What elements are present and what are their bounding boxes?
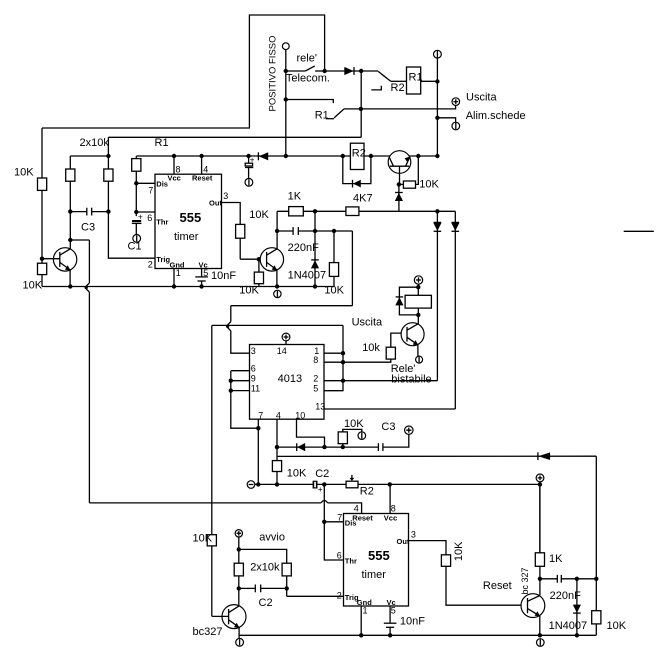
wire Q4 collector xyxy=(417,287,419,324)
svg-text:+: + xyxy=(318,485,323,494)
terminal below C1 xyxy=(133,235,141,243)
switch R2 contact xyxy=(361,70,378,72)
pin 2 wire xyxy=(324,380,437,382)
terminal plus right xyxy=(536,474,544,482)
svg-text:4K7: 4K7 xyxy=(353,193,373,205)
node thr xyxy=(134,210,138,214)
wire bottom rail y635 xyxy=(239,634,596,636)
wire Q5 collector column xyxy=(539,484,541,595)
node x315 y231 xyxy=(313,229,317,233)
wire minus rail y484 xyxy=(255,483,540,485)
node 220nF2 left xyxy=(538,577,542,581)
svg-text:2: 2 xyxy=(313,373,318,383)
node positivo/R1 branch xyxy=(284,97,288,101)
svg-text:13: 13 xyxy=(315,402,325,412)
wire hop column x89 lower xyxy=(88,292,90,503)
svg-text:timer: timer xyxy=(362,569,387,581)
capacitor C3 #2 plates xyxy=(377,443,379,451)
svg-text:5: 5 xyxy=(391,606,396,616)
diode pin4 (points left) xyxy=(296,443,298,451)
svg-text:Alim.schede: Alim.schede xyxy=(466,110,526,122)
diode y456 (points left) xyxy=(537,452,539,460)
resistor 10K y436 xyxy=(342,444,344,447)
svg-text:rele': rele' xyxy=(297,53,317,65)
wire alim schede xyxy=(437,118,455,122)
terminal Uscita plus xyxy=(452,98,460,106)
transistor Q5 reset bc327 xyxy=(521,594,545,618)
svg-text:2x10k: 2x10k xyxy=(80,137,110,149)
svg-text:C2: C2 xyxy=(259,597,273,609)
svg-text:Out: Out xyxy=(209,199,222,208)
resistor 2x10k right xyxy=(104,169,113,181)
node pin7 xyxy=(256,426,260,430)
svg-text:3: 3 xyxy=(223,191,228,201)
svg-text:bc 327: bc 327 xyxy=(520,567,530,594)
pin 8 Vcc stub xyxy=(173,156,175,174)
wire q2 collector xyxy=(276,211,278,249)
resistor 10K q2 base xyxy=(258,259,260,272)
svg-text:2: 2 xyxy=(337,591,342,601)
svg-text:R1: R1 xyxy=(315,110,329,122)
node q1 emitter ground xyxy=(68,284,72,288)
capacitor 220nF2 plates xyxy=(556,575,558,583)
pin 11 wire xyxy=(231,390,250,392)
svg-text:6: 6 xyxy=(337,550,342,560)
wire Q4 emitter xyxy=(417,345,419,356)
node pin11 xyxy=(229,388,233,392)
node gnd x174 xyxy=(172,284,176,288)
svg-text:2x10k: 2x10k xyxy=(250,562,280,574)
wire dis2 xyxy=(324,521,343,523)
svg-text:R1: R1 xyxy=(409,72,423,84)
switch R2 fixed contact mark xyxy=(371,86,381,90)
resistor 4K7 xyxy=(346,207,359,216)
wire y456 row xyxy=(277,455,596,457)
svg-text:3: 3 xyxy=(411,530,416,540)
node 2x10k top right xyxy=(106,154,110,158)
node y484 C2 xyxy=(322,482,326,486)
node rail x418 xyxy=(416,154,420,158)
pin 13 wire xyxy=(324,408,455,410)
diode q3 base (points up) xyxy=(398,184,400,211)
svg-text:4013: 4013 xyxy=(278,373,302,385)
wire reset row y503 xyxy=(89,502,321,504)
svg-text:555: 555 xyxy=(368,548,390,563)
wire top feedback loop xyxy=(42,15,325,128)
svg-text:10nF: 10nF xyxy=(400,615,425,627)
wire 2x10k right lower xyxy=(286,576,288,596)
svg-text:10K: 10K xyxy=(344,418,364,430)
terminal below bc327 xyxy=(236,638,244,646)
svg-text:10K: 10K xyxy=(419,179,439,191)
switch R1 blade xyxy=(326,118,334,120)
svg-text:8: 8 xyxy=(391,503,396,513)
svg-text:1: 1 xyxy=(176,268,181,278)
wire 10k to base xyxy=(391,333,402,347)
terminal below elko xyxy=(245,178,253,186)
node R1 coil right xyxy=(435,79,439,83)
terminal avvio plus xyxy=(235,530,242,537)
resistor 10K top-left xyxy=(38,178,47,190)
wire pin8 to 10k xyxy=(343,359,391,362)
svg-text:10K: 10K xyxy=(453,541,465,561)
diode on rail (points left) xyxy=(259,152,268,160)
wire q2 emitter xyxy=(276,270,278,287)
svg-text:avvio: avvio xyxy=(259,532,285,544)
wire R1 coil to terminal column xyxy=(421,80,438,82)
node rail x201 xyxy=(199,154,203,158)
node rail elko xyxy=(246,154,250,158)
wire y137 xyxy=(108,136,361,138)
relay coil R1 xyxy=(407,67,421,94)
pin 1 Gnd stub #2 xyxy=(360,606,362,635)
svg-text:7: 7 xyxy=(337,512,342,522)
node q2 collector 220nF xyxy=(275,229,279,233)
pin 1 Gnd stub xyxy=(173,269,175,287)
pin 9 wire xyxy=(231,380,250,382)
wire Q3 base network xyxy=(399,183,404,185)
node telecom right xyxy=(322,69,326,73)
wire pin3 column with hop xyxy=(230,306,232,322)
corner into Dis resistor xyxy=(135,156,137,159)
node x315 ground xyxy=(313,284,317,288)
terminal plus pin14 xyxy=(282,333,290,341)
node y578 right column xyxy=(594,577,598,581)
svg-text:10K: 10K xyxy=(287,468,307,480)
wire pins691 column xyxy=(231,371,258,429)
resistor 10K pin4 xyxy=(272,461,281,472)
wire Q5 emitter xyxy=(539,616,541,635)
resistor 1K #2 xyxy=(535,553,544,567)
wire avvio top row xyxy=(239,549,287,563)
svg-text:6: 6 xyxy=(147,213,152,223)
terminal below Q5 xyxy=(537,639,545,647)
node pin10 xyxy=(322,445,326,449)
svg-text:10K: 10K xyxy=(23,280,43,292)
svg-text:7: 7 xyxy=(258,410,263,420)
wire plus column 1K xyxy=(539,482,541,553)
relay coil R2 xyxy=(350,143,364,169)
transistor Q3 relay driver xyxy=(388,151,411,174)
wire hop column x89 upper xyxy=(88,240,90,283)
wire main rail y156 xyxy=(136,155,437,157)
svg-text:10K: 10K xyxy=(607,620,627,632)
svg-text:4: 4 xyxy=(354,503,359,513)
resistor 2x10k right #2 xyxy=(282,563,291,576)
wire diode row y447 xyxy=(277,446,378,448)
pin 1 wire xyxy=(324,352,343,354)
transistor bc327 xyxy=(222,605,246,629)
node avvio top xyxy=(237,547,241,551)
wire 220nF2 row xyxy=(540,578,557,580)
svg-text:Uscita: Uscita xyxy=(466,92,497,104)
node C2 left xyxy=(237,586,241,590)
node y484 pin7 xyxy=(256,482,260,486)
pin 5 wire xyxy=(324,390,343,392)
wire left column x42 xyxy=(41,128,43,287)
pin 4 Reset stub xyxy=(201,156,203,174)
node y484 right end xyxy=(538,482,542,486)
wire x315 column xyxy=(314,211,316,286)
pin 2 Trig wire #2 xyxy=(287,595,344,597)
diode 1N4007 (points up) xyxy=(311,259,319,261)
node alim branch xyxy=(435,116,439,120)
svg-text:10k: 10k xyxy=(362,342,380,354)
svg-text:R2: R2 xyxy=(352,148,366,160)
node switch column xyxy=(359,69,363,73)
pin 8 Vcc stub #2 xyxy=(389,484,391,513)
wire uscita y109 xyxy=(344,105,456,109)
svg-text:Out: Out xyxy=(397,537,410,546)
capacitor C2 elko xyxy=(313,481,318,489)
svg-text:Dis: Dis xyxy=(156,180,168,189)
wire ground y286 xyxy=(42,286,334,288)
resistor 10K lower-left xyxy=(38,263,47,274)
svg-text:C3: C3 xyxy=(381,421,395,433)
pin 8 wire xyxy=(324,361,343,363)
svg-text:1N4007: 1N4007 xyxy=(549,620,588,632)
wire 2x10k tops xyxy=(70,155,108,157)
diode flyback R2 (points left) xyxy=(353,180,361,188)
diode 1N4007 #2 (points down) xyxy=(576,579,578,636)
node C2 right xyxy=(285,586,289,590)
svg-text:2: 2 xyxy=(148,259,153,269)
IC 555 timer #1 xyxy=(155,174,222,268)
hop over ground wire xyxy=(86,283,89,292)
svg-text:bistabile: bistabile xyxy=(391,373,431,385)
wire q1 emitter xyxy=(69,270,71,287)
node y211 x437 xyxy=(435,209,439,213)
node R1 blade column xyxy=(359,107,363,111)
svg-text:10K: 10K xyxy=(249,209,269,221)
trimmer R2 xyxy=(346,481,358,488)
node rail end x437 xyxy=(435,154,439,158)
capacitor elko at rail xyxy=(248,156,250,163)
diode telecom (points right) xyxy=(344,67,353,75)
svg-text:10K: 10K xyxy=(14,167,34,179)
svg-text:Thr: Thr xyxy=(345,556,357,565)
terminal below q2 xyxy=(274,290,281,297)
svg-text:timer: timer xyxy=(174,231,199,243)
node y484 pin4 xyxy=(275,482,279,486)
terminal supply top-right xyxy=(434,50,442,58)
wire Uscita y325 xyxy=(212,324,343,326)
resistor 10K dis xyxy=(132,159,141,172)
wire uscita column x211 xyxy=(211,325,213,616)
wire q1 collector to hop column xyxy=(70,239,89,241)
resistor 10K q3 xyxy=(403,181,415,188)
svg-text:1: 1 xyxy=(363,606,368,616)
svg-text:10nF: 10nF xyxy=(211,270,236,282)
terminal x361 xyxy=(358,432,366,440)
svg-text:10: 10 xyxy=(295,410,305,420)
wire x108 column xyxy=(108,137,155,258)
capacitor C2 #2 xyxy=(239,587,256,589)
wire switch column x361 xyxy=(360,71,362,137)
node dis2 xyxy=(322,520,326,524)
svg-text:bc327: bc327 xyxy=(193,626,223,638)
pin 5 Vc stub + 10nF #2 xyxy=(389,606,391,623)
svg-text:+: + xyxy=(250,155,255,164)
resistor 10K x334 xyxy=(333,231,335,287)
wire positivo rail x286 xyxy=(285,50,287,156)
node bistabile bottom xyxy=(416,313,420,317)
wire 220nF y231 xyxy=(277,230,293,232)
transistor Q1 xyxy=(53,248,76,271)
wire telecom to diode xyxy=(325,70,362,72)
svg-text:10K: 10K xyxy=(239,285,259,297)
node c3 left xyxy=(68,209,72,213)
node pin2 xyxy=(341,379,345,383)
pin 7 Dis wire xyxy=(136,182,155,184)
svg-text:7: 7 xyxy=(148,185,153,195)
wire C2 column to 555 xyxy=(324,484,343,560)
node 1n4007-2 top xyxy=(575,577,579,581)
svg-text:POSITIVO FISSO: POSITIVO FISSO xyxy=(267,35,278,111)
svg-text:+: + xyxy=(138,212,143,221)
terminal below Q4 xyxy=(416,356,423,363)
relay coil bistabile xyxy=(405,295,431,308)
svg-text:R2: R2 xyxy=(391,82,405,94)
switch R1 fixed wire xyxy=(286,100,334,104)
diode to 4013 (points down) x455 xyxy=(454,211,456,409)
diode flyback bistabile (points up) xyxy=(396,296,404,298)
terminal minus xyxy=(247,481,255,489)
resistor 2x10k left #2 xyxy=(234,563,243,576)
svg-text:3: 3 xyxy=(251,346,256,356)
transistor Q2 xyxy=(260,248,283,271)
pin 6 wire xyxy=(231,370,250,372)
svg-text:8: 8 xyxy=(313,355,318,365)
wire x352 column xyxy=(351,231,353,306)
resistor 10k bistabile xyxy=(386,347,395,359)
pin 10 dogleg xyxy=(297,419,325,447)
resistor 1K xyxy=(289,207,304,216)
wire out resistor to base xyxy=(240,258,266,260)
node rail x174 xyxy=(172,154,176,158)
wire 2x10k left column xyxy=(69,156,71,249)
node q2 base divider xyxy=(257,257,261,261)
node telecom left xyxy=(284,69,288,73)
node dis xyxy=(134,181,138,185)
relay coil R2 flyback bracket xyxy=(343,156,371,184)
node pin8 xyxy=(341,360,345,364)
terminal Alim.schede xyxy=(452,122,460,130)
svg-text:Trig: Trig xyxy=(156,255,170,264)
wire bc327 emitter xyxy=(238,627,240,638)
node 10K col y447 xyxy=(341,445,345,449)
node gnd x201 xyxy=(199,284,203,288)
resistor 10K out xyxy=(236,224,245,238)
svg-text:9: 9 xyxy=(251,373,256,383)
pin 4 column xyxy=(276,419,278,484)
resistor 10K x211 xyxy=(207,535,216,546)
IC 4013 xyxy=(250,345,325,420)
svg-text:C3: C3 xyxy=(81,222,95,234)
node rail positivo xyxy=(284,154,288,158)
terminal plus bistabile xyxy=(414,276,422,284)
svg-text:6: 6 xyxy=(251,364,256,374)
svg-text:Vcc: Vcc xyxy=(168,173,181,182)
node y211 x315 xyxy=(313,209,317,213)
flyback bracket bistabile xyxy=(399,287,418,315)
svg-text:R2: R2 xyxy=(360,486,374,498)
svg-text:R1: R1 xyxy=(155,137,169,149)
IC 555 timer #2 xyxy=(344,514,409,607)
wire 4013 right column x343 xyxy=(324,325,343,390)
node pin1 xyxy=(341,351,345,355)
node Q3 base xyxy=(397,182,401,186)
svg-text:555: 555 xyxy=(180,210,202,225)
node 1n4007-2 bottom xyxy=(575,633,579,637)
capacitor 220nF plates xyxy=(292,227,294,235)
node coil R2 right xyxy=(369,154,373,158)
svg-text:5: 5 xyxy=(313,383,318,393)
svg-text:C2: C2 xyxy=(315,468,329,480)
node q1 collector top xyxy=(68,238,72,242)
svg-text:4: 4 xyxy=(276,410,281,420)
resistor 2x10k left xyxy=(66,169,75,181)
svg-text:10K: 10K xyxy=(324,285,344,297)
node gnd2 xyxy=(359,633,363,637)
wire terminal column x437 xyxy=(436,58,438,156)
pin 6 Thr wire xyxy=(136,211,155,213)
svg-text:Vcc: Vcc xyxy=(384,514,397,523)
node pin9 xyxy=(229,379,233,383)
node pin4 diode wire xyxy=(275,445,279,449)
node bistabile top xyxy=(416,285,420,289)
pin 5 Vc stub + 10nF cap xyxy=(201,269,203,277)
svg-text:14: 14 xyxy=(277,346,287,356)
capacitor C3 between 2x10k xyxy=(70,211,87,213)
node Q5 emitter xyxy=(538,633,542,637)
pin 3 Out wire xyxy=(222,203,241,260)
svg-text:1K: 1K xyxy=(288,191,302,203)
node q2 emitter xyxy=(275,284,279,288)
svg-text:10K: 10K xyxy=(193,533,213,545)
diodes to 4013 (point down) x437 xyxy=(436,211,438,380)
svg-text:1N4007: 1N4007 xyxy=(288,269,327,281)
terminal plus C3 xyxy=(405,426,413,434)
svg-text:Uscita: Uscita xyxy=(352,316,383,328)
svg-text:C1: C1 xyxy=(128,241,142,253)
svg-text:Reset: Reset xyxy=(483,580,512,592)
node q1 base xyxy=(40,257,44,261)
pin 7 stub xyxy=(257,419,259,484)
node coil R2 left xyxy=(341,154,345,158)
svg-text:Dis: Dis xyxy=(345,519,357,528)
terminal POSITIVO FISSO xyxy=(282,43,289,50)
wire dis column xyxy=(135,171,137,216)
resistor 10K out2 xyxy=(441,555,450,567)
wire y306 xyxy=(231,305,353,307)
svg-text:1K: 1K xyxy=(549,553,563,565)
transistor Q4 bistabile driver xyxy=(401,323,424,346)
node x334 y231 xyxy=(332,229,336,233)
svg-text:Reset: Reset xyxy=(192,173,213,182)
switch rele' Telecom xyxy=(286,70,306,72)
isolated dash right edge xyxy=(624,230,654,232)
node y484 vcc column xyxy=(388,482,392,486)
svg-text:Thr: Thr xyxy=(156,218,168,227)
resistor 10K right xyxy=(592,611,601,624)
svg-text:Telecom.: Telecom. xyxy=(286,72,330,84)
node c3 right xyxy=(106,209,110,213)
wire 1K 4K7 rail y211 xyxy=(277,210,455,212)
svg-text:11: 11 xyxy=(251,383,260,393)
wire right column x596 xyxy=(595,456,597,635)
wire out2 xyxy=(409,541,527,606)
